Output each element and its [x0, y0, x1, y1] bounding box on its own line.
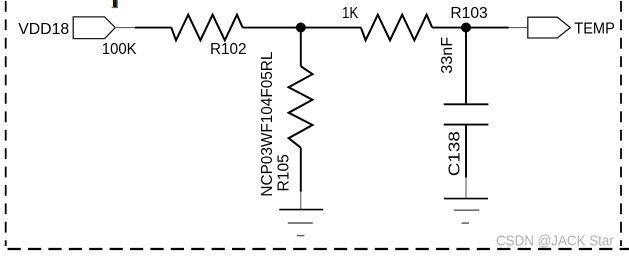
ground pin stub (thin) below C138	[465, 178, 467, 198]
capacitor C138	[444, 104, 489, 124]
svg-text:1K: 1K	[342, 5, 359, 22]
wire node B down to C138	[465, 28, 467, 104]
wire R105 to ground	[300, 148, 302, 192]
svg-text:R102: R102	[210, 41, 247, 58]
svg-text:VDD18: VDD18	[18, 21, 69, 38]
svg-text:R105: R105	[275, 154, 292, 191]
wire node A down to R105	[300, 28, 302, 67]
dashed sheet border bottom	[8, 248, 629, 250]
svg-text:33nF: 33nF	[439, 37, 456, 74]
wire node A to R103	[301, 27, 361, 29]
wire node B to TEMP port	[466, 27, 509, 29]
svg-text:100K: 100K	[102, 41, 137, 58]
ground pin stub (thin) below R105	[300, 192, 302, 209]
svg-text:NCP03WF104F05RL: NCP03WF104F05RL	[259, 52, 276, 197]
svg-text:C138: C138	[446, 131, 463, 176]
cropped title text fragment (subpixel-rendered stem)	[112, 0, 118, 8]
resistor R103	[361, 15, 432, 41]
ground symbol under C138	[444, 199, 488, 224]
resistor R102	[171, 15, 242, 41]
wire R102 to node A	[243, 27, 301, 29]
dashed sheet border left	[5, 1, 7, 246]
svg-text:R103: R103	[450, 5, 487, 22]
junction node B	[461, 23, 471, 33]
port TEMP	[528, 17, 571, 38]
wire C138 to ground	[465, 125, 467, 177]
port VDD18	[73, 17, 115, 39]
wire VDD18 to R102	[135, 27, 172, 29]
resistor R105 (vertical)	[289, 66, 313, 148]
ground symbol under R105	[279, 210, 323, 236]
svg-text:CSDN @JACK Star: CSDN @JACK Star	[496, 233, 614, 250]
pin of port VDD18 (thin)	[115, 27, 135, 29]
wire R103 to node B	[432, 27, 466, 29]
dashed sheet border right	[620, 1, 622, 246]
junction node A	[296, 23, 306, 33]
svg-text:TEMP: TEMP	[574, 20, 615, 37]
pin of port TEMP (thin)	[509, 27, 528, 29]
